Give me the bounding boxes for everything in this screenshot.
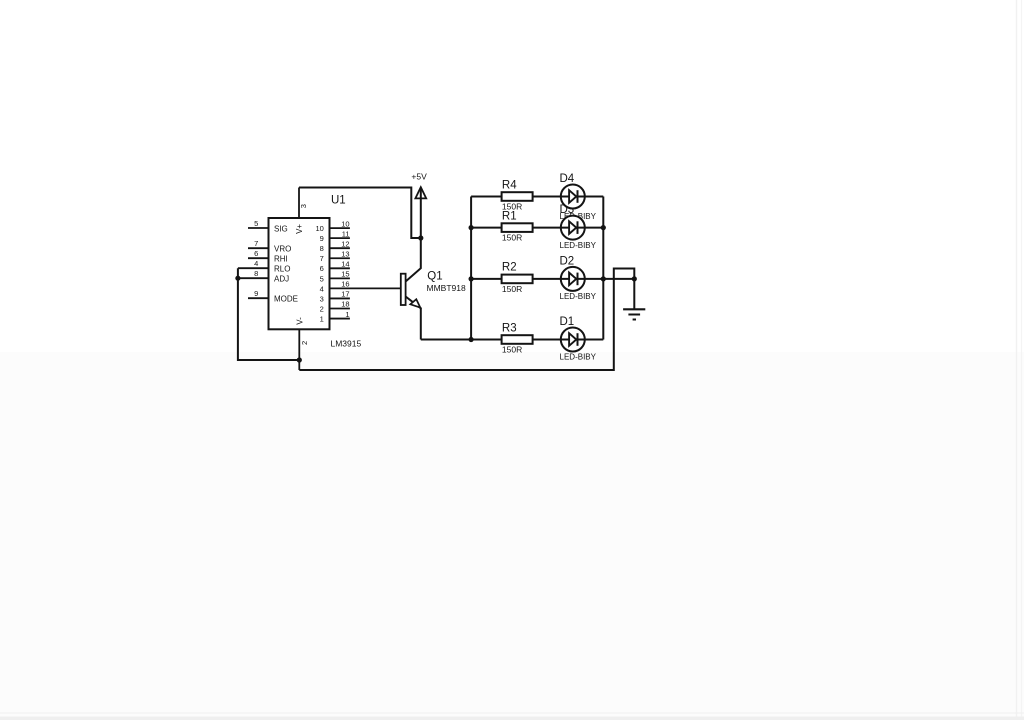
U1 pin 12 (internal 8) stub and labels xyxy=(320,239,350,253)
ground symbol xyxy=(623,309,645,319)
U1 pin 17 (internal 3) stub and labels xyxy=(320,290,350,304)
svg-text:5: 5 xyxy=(320,274,324,283)
U1 pin 4 (RLO) stub and labels xyxy=(238,259,291,274)
diode D1 symbol xyxy=(569,333,577,346)
svg-text:VRO: VRO xyxy=(274,245,291,254)
wire: ground stem xyxy=(633,279,635,309)
U1 pin 16 (internal 4) stub and labels xyxy=(320,280,401,294)
wire: U1 pin3 to +5V junction xyxy=(299,188,421,239)
svg-text:15: 15 xyxy=(341,270,349,279)
svg-text:6: 6 xyxy=(254,249,258,258)
svg-text:LED-BIBY: LED-BIBY xyxy=(560,292,597,301)
svg-text:V-: V- xyxy=(295,317,304,325)
svg-text:2: 2 xyxy=(300,341,309,345)
wire: row R2/D2 xyxy=(471,278,603,280)
junction: V- wire / ADJ loop xyxy=(297,357,302,362)
svg-text:150R: 150R xyxy=(502,201,522,211)
wire: right LED bus xyxy=(602,197,604,340)
svg-text:2: 2 xyxy=(320,304,324,313)
svg-text:U1: U1 xyxy=(331,195,346,207)
resistor R2 body xyxy=(502,275,533,284)
junction: left bus row2 xyxy=(469,225,474,230)
svg-text:SIG: SIG xyxy=(274,224,288,233)
svg-text:18: 18 xyxy=(341,300,349,309)
op-amp/IC U1 LM3915 body xyxy=(269,218,330,329)
svg-text:4: 4 xyxy=(254,259,258,268)
svg-text:LED-BIBY: LED-BIBY xyxy=(560,241,597,250)
svg-text:R1: R1 xyxy=(502,210,517,222)
transistor Q1 MMBT918 xyxy=(401,240,466,340)
svg-text:150R: 150R xyxy=(502,284,522,294)
svg-text:ADJ: ADJ xyxy=(274,275,289,284)
junction: ground node xyxy=(632,276,637,281)
svg-text:14: 14 xyxy=(341,260,349,269)
resistor R3 body xyxy=(502,335,533,344)
junction: right bus row2 xyxy=(601,225,606,230)
wire: row D2 to ground node xyxy=(603,278,634,280)
svg-text:4: 4 xyxy=(320,284,324,293)
resistor R4 body xyxy=(502,192,533,201)
U1 pin 8 (ADJ) stub and labels xyxy=(238,269,289,284)
junction: right bus row3 xyxy=(601,276,606,281)
LED D1 circle body xyxy=(561,328,585,352)
diode D2 symbol xyxy=(569,273,577,286)
svg-text:150R: 150R xyxy=(502,233,522,243)
junction: RLO-ADJ tie xyxy=(235,276,240,281)
svg-text:D2: D2 xyxy=(560,255,575,267)
svg-text:8: 8 xyxy=(320,244,324,253)
svg-text:11: 11 xyxy=(342,229,350,238)
svg-text:R3: R3 xyxy=(502,322,517,334)
U1 pin 18 (internal 2) stub and labels xyxy=(320,300,350,314)
wire: row R1/D3 xyxy=(471,227,603,229)
wire: bottom ground rail to ground node xyxy=(299,269,634,371)
svg-text:D4: D4 xyxy=(560,173,575,185)
svg-text:MODE: MODE xyxy=(274,295,298,304)
junction: +5V / collector / pin3 wire xyxy=(418,235,423,240)
svg-text:5: 5 xyxy=(254,219,258,228)
svg-text:8: 8 xyxy=(254,269,258,278)
U1 pin 6 (RHI) stub and labels xyxy=(248,249,288,264)
power +5V symbol xyxy=(411,172,427,239)
svg-text:7: 7 xyxy=(320,254,324,263)
U1 pin 2 (V-) bottom stub xyxy=(299,329,309,370)
svg-text:16: 16 xyxy=(341,280,349,289)
wire: row R4/D4 xyxy=(471,196,603,198)
wire: row R3/D1 xyxy=(471,339,603,341)
svg-text:RLO: RLO xyxy=(274,265,290,274)
diode D3 symbol xyxy=(569,221,577,234)
U1 pin 5 (SIG) stub and labels xyxy=(248,219,288,234)
svg-text:6: 6 xyxy=(320,264,324,273)
svg-text:+5V: +5V xyxy=(411,172,427,182)
svg-text:MMBT918: MMBT918 xyxy=(427,283,466,293)
LED D4 circle body xyxy=(561,185,585,209)
U1 pin 14 (internal 6) stub and labels xyxy=(320,260,350,274)
svg-text:3: 3 xyxy=(299,204,308,208)
svg-text:17: 17 xyxy=(341,290,349,299)
U1 pin 11 (internal 9) stub and labels xyxy=(320,229,350,243)
junction: left bus row4 xyxy=(469,337,474,342)
svg-text:R4: R4 xyxy=(502,179,517,191)
svg-text:D1: D1 xyxy=(560,316,575,328)
svg-text:LM3915: LM3915 xyxy=(331,338,362,348)
wire: left LED bus xyxy=(470,197,472,340)
diode D4 symbol xyxy=(569,190,577,203)
wire: Q1 emitter to left LED bus xyxy=(421,339,471,341)
svg-text:7: 7 xyxy=(254,239,258,248)
svg-text:9: 9 xyxy=(254,289,258,298)
U1 pin 9 (MODE) stub and labels xyxy=(248,289,298,304)
U1 pin 15 (internal 5) stub and labels xyxy=(320,270,350,284)
svg-text:1: 1 xyxy=(345,310,349,319)
U1 pin 1 (internal 1) stub and labels xyxy=(320,310,350,324)
U1 pin 3 (V+) top stub xyxy=(299,188,308,219)
resistor R1 body xyxy=(502,223,533,232)
svg-text:10: 10 xyxy=(341,219,349,228)
U1 pin 10 (internal 10) stub and labels xyxy=(315,219,349,233)
U1 pin 13 (internal 7) stub and labels xyxy=(320,249,350,263)
junction: left bus row3 xyxy=(469,276,474,281)
svg-text:R2: R2 xyxy=(502,262,517,274)
svg-text:12: 12 xyxy=(341,239,349,248)
svg-text:Q1: Q1 xyxy=(427,271,442,283)
svg-text:1: 1 xyxy=(320,314,324,323)
svg-text:RHI: RHI xyxy=(274,255,288,264)
svg-text:V+: V+ xyxy=(295,224,304,234)
LED D3 circle body xyxy=(561,216,585,240)
LED D2 circle body xyxy=(561,267,585,291)
U1 pin 7 (VRO) stub and labels xyxy=(248,239,291,254)
svg-text:150R: 150R xyxy=(502,344,522,354)
svg-text:10: 10 xyxy=(315,224,323,233)
svg-text:13: 13 xyxy=(341,249,349,258)
svg-text:LED-BIBY: LED-BIBY xyxy=(560,353,597,362)
svg-text:3: 3 xyxy=(320,294,324,303)
svg-text:9: 9 xyxy=(320,234,324,243)
wire: RLO/ADJ tie down to V- rail xyxy=(238,268,299,360)
